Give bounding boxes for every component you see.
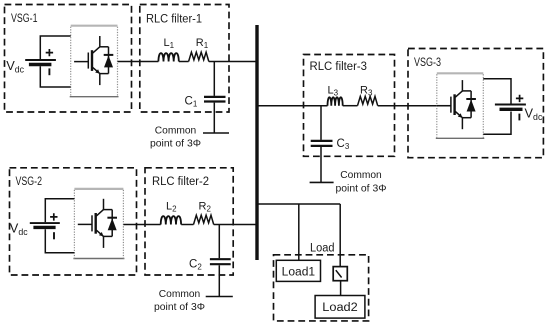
wire VSG-1 output to L1: [118, 61, 159, 63]
switch box: [333, 267, 347, 281]
wire L3 to R3: [343, 105, 358, 107]
common point terminal 1: [203, 132, 229, 134]
capacitor C3 plates: [311, 140, 333, 142]
Load2 box: [315, 296, 365, 319]
battery B2 minus stroke: [53, 232, 55, 239]
svg-text:Common: Common: [159, 289, 201, 300]
svg-text:RLC filter-3: RLC filter-3: [310, 61, 368, 73]
RLC filter-3 dashed box: [304, 55, 395, 157]
switch diagonal: [336, 270, 342, 277]
svg-text:Load: Load: [310, 243, 335, 255]
Load1 box: [276, 260, 320, 281]
common point terminal 2: [206, 296, 233, 298]
svg-text:RLC filter-2: RLC filter-2: [152, 176, 209, 188]
wire L1 to R1: [179, 61, 189, 63]
wire switch to Load2: [340, 281, 342, 296]
resistor R1: [189, 52, 209, 61]
capacitor C2 branch wire lower: [218, 265, 220, 296]
battery B2 plus sign: [50, 213, 57, 220]
Load dashed box: [274, 255, 369, 321]
wire bus to load branch: [257, 203, 340, 205]
battery B1 plus sign: [46, 49, 53, 56]
capacitor C3 branch wire upper: [320, 106, 322, 140]
svg-text:RLC filter-1: RLC filter-1: [146, 13, 202, 25]
svg-text:VSG-1: VSG-1: [11, 13, 38, 25]
common point terminal 3: [310, 181, 334, 183]
capacitor C3 branch wire lower: [320, 147, 322, 182]
wire bus to RLC filter-3: [257, 105, 328, 107]
wire R1 to bus: [209, 61, 257, 63]
svg-text:point of 3Φ: point of 3Φ: [154, 302, 205, 313]
wire down to Load1: [298, 204, 300, 260]
capacitor C1 plates: [204, 96, 226, 98]
battery B3 minus stroke: [518, 114, 520, 121]
VSG-2 battery loop wire: [45, 199, 74, 253]
RLC filter-2 dashed box: [145, 168, 233, 275]
wire down to switch: [339, 204, 341, 271]
svg-text:Load1: Load1: [282, 267, 316, 279]
inductor L2: [161, 216, 181, 224]
svg-text:point of 3Φ: point of 3Φ: [336, 184, 387, 195]
battery B2 plates: [30, 222, 60, 224]
wire R2 to bus: [214, 224, 257, 226]
VSG-1 dashed box: [5, 5, 132, 113]
svg-text:Load2: Load2: [322, 302, 358, 314]
svg-text:Common: Common: [340, 170, 382, 181]
VSG-3 dashed box: [408, 49, 543, 158]
IGBT U3: [437, 80, 476, 129]
svg-text:Common: Common: [155, 126, 197, 137]
resistor R2: [194, 215, 214, 224]
RLC filter-1 dashed box: [140, 5, 229, 113]
battery B3 plus sign: [516, 95, 523, 102]
battery B1 plates: [25, 59, 56, 61]
capacitor C2 branch wire upper: [218, 225, 220, 259]
VSG-2 dashed box: [10, 168, 137, 275]
capacitor C2 plates: [210, 258, 231, 260]
wire VSG-2 output to L2: [123, 224, 160, 226]
IGBT U2: [78, 199, 117, 248]
inductor L1: [158, 53, 178, 61]
svg-text:VSG-3: VSG-3: [414, 57, 441, 69]
battery B3 plates: [495, 104, 526, 106]
VSG-3 converter gray box: [437, 72, 484, 74]
IGBT U1: [74, 36, 113, 85]
svg-text:point of 3Φ: point of 3Φ: [150, 139, 201, 150]
capacitor C1 branch wire upper: [213, 62, 215, 96]
VSG-1 battery loop wire: [40, 36, 70, 87]
resistor R3: [358, 96, 378, 105]
wire R3 to VSG-3 gate: [378, 105, 451, 107]
capacitor C1 branch wire lower: [213, 103, 215, 133]
VSG-1 converter gray box: [71, 25, 118, 27]
wire L2 to R2: [181, 224, 193, 226]
VSG-3 battery loop wire: [483, 79, 511, 135]
svg-text:VSG-2: VSG-2: [16, 176, 43, 188]
inductor L3: [328, 97, 343, 105]
bus bar: [255, 25, 258, 260]
battery B1 minus stroke: [48, 68, 50, 75]
VSG-2 converter gray box: [74, 188, 123, 190]
